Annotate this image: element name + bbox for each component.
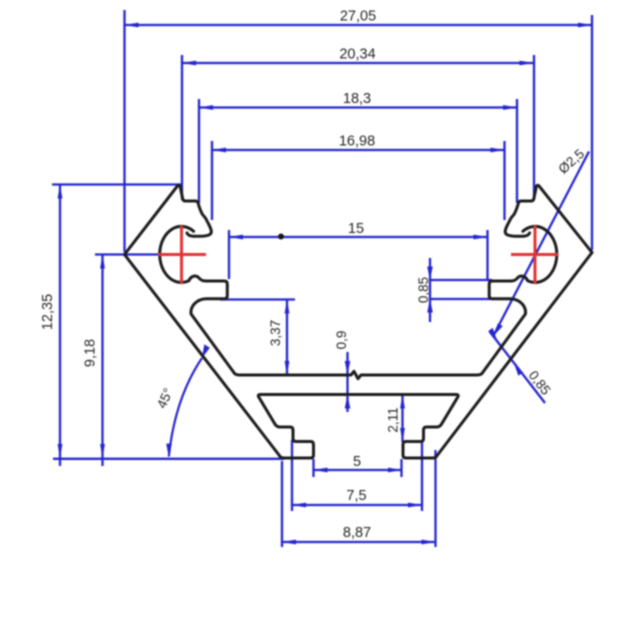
svg-text:8,87: 8,87 — [343, 525, 371, 541]
svg-text:45°: 45° — [154, 386, 176, 411]
svg-text:7,5: 7,5 — [346, 488, 366, 504]
svg-text:5: 5 — [353, 454, 361, 470]
svg-text:18,3: 18,3 — [343, 91, 371, 107]
svg-text:0,9: 0,9 — [334, 331, 349, 350]
svg-text:15: 15 — [348, 221, 364, 237]
svg-text:2,11: 2,11 — [386, 407, 401, 432]
svg-text:9,18: 9,18 — [83, 339, 99, 367]
svg-text:12,35: 12,35 — [40, 294, 56, 330]
svg-text:16,98: 16,98 — [339, 134, 375, 150]
svg-text:20,34: 20,34 — [339, 47, 375, 63]
svg-text:0,85: 0,85 — [416, 277, 431, 303]
svg-text:Ø2,5: Ø2,5 — [555, 146, 587, 177]
svg-text:27,05: 27,05 — [340, 9, 376, 25]
svg-text:3,37: 3,37 — [268, 320, 283, 346]
